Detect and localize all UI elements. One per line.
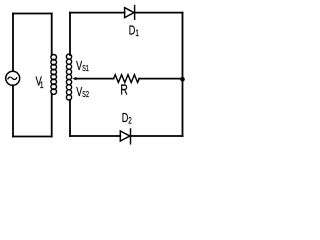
wire: left loop top bbox=[13, 13, 52, 15]
wire: primary bottom lead bbox=[51, 94, 53, 137]
wire: primary top lead bbox=[51, 14, 53, 56]
wire: resistor to right rail bbox=[139, 78, 182, 80]
wire: secondary bottom lead bbox=[69, 100, 71, 136]
svg-text:D1: D1 bbox=[129, 24, 139, 38]
wire: right rail bbox=[182, 13, 184, 136]
wire: D2 to right rail bbox=[131, 135, 183, 137]
transformer secondary winding bbox=[66, 54, 71, 100]
svg-text:VS2: VS2 bbox=[76, 85, 89, 99]
ac source V1 bbox=[6, 71, 20, 85]
diode D2 bbox=[120, 129, 130, 144]
center tap arrow bbox=[72, 77, 76, 80]
wire: secondary bottom to diode D2 bbox=[70, 135, 120, 137]
wire: left loop bottom bbox=[13, 136, 52, 138]
svg-text:V1: V1 bbox=[36, 75, 44, 90]
wire: left loop left upper bbox=[12, 14, 14, 72]
wire: secondary top lead bbox=[69, 13, 71, 55]
resistor R bbox=[114, 75, 140, 83]
wire: left loop left lower bbox=[12, 85, 14, 136]
wire: D1 to right rail bbox=[135, 12, 183, 14]
diode D1 bbox=[125, 6, 135, 20]
svg-text:R: R bbox=[120, 81, 128, 98]
transformer primary winding bbox=[51, 55, 57, 95]
wire: secondary top to diode D1 bbox=[70, 12, 125, 14]
svg-text:VS1: VS1 bbox=[76, 59, 89, 73]
wire: center tap to resistor bbox=[75, 78, 114, 80]
node: junction on right rail bbox=[180, 77, 185, 82]
svg-text:D2: D2 bbox=[122, 112, 132, 126]
